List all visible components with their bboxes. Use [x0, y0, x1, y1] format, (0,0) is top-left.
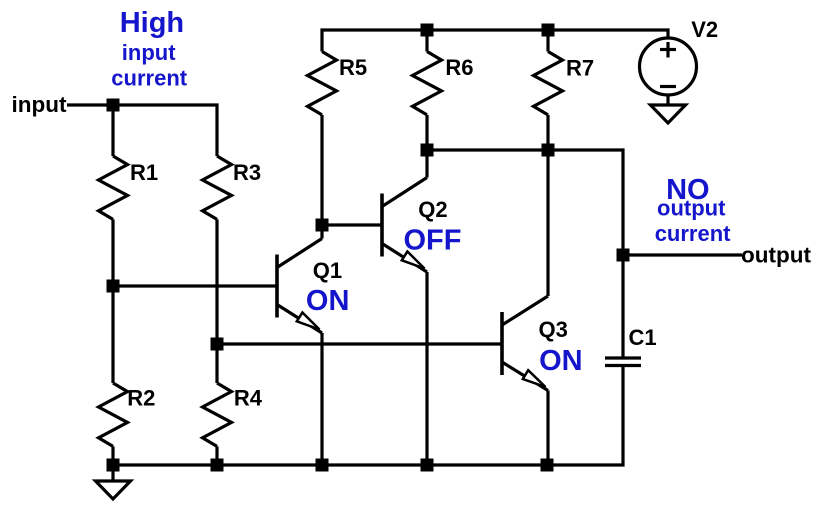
svg-text:R2: R2	[127, 386, 155, 411]
svg-text:Q1: Q1	[313, 258, 342, 283]
svg-text:current: current	[655, 221, 731, 246]
svg-text:Q3: Q3	[539, 317, 568, 342]
svg-text:input: input	[122, 40, 176, 65]
svg-text:ON: ON	[306, 285, 350, 317]
svg-text:R7: R7	[566, 56, 594, 81]
svg-text:C1: C1	[629, 325, 657, 350]
svg-text:R5: R5	[339, 55, 367, 80]
svg-text:current: current	[111, 66, 187, 91]
svg-text:R4: R4	[234, 386, 263, 411]
svg-text:output: output	[741, 243, 811, 268]
svg-text:High: High	[120, 7, 184, 39]
svg-text:input: input	[12, 92, 67, 117]
svg-text:R6: R6	[445, 55, 473, 80]
svg-text:R3: R3	[233, 160, 261, 185]
svg-text:R1: R1	[130, 160, 158, 185]
svg-text:output: output	[657, 196, 726, 221]
svg-text:V2: V2	[691, 17, 718, 42]
svg-text:OFF: OFF	[404, 225, 462, 257]
svg-text:Q2: Q2	[418, 197, 447, 222]
svg-text:ON: ON	[539, 345, 583, 377]
